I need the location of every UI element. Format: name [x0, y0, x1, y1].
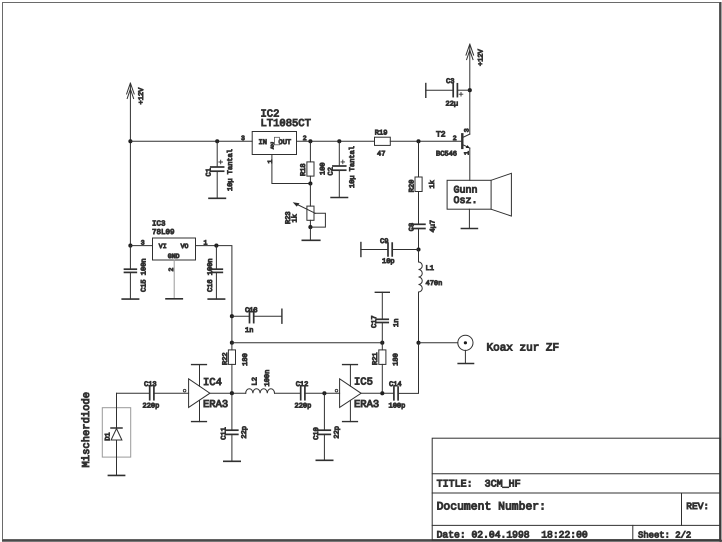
svg-text:4µ7: 4µ7 — [429, 220, 437, 233]
ground R23 — [302, 239, 320, 241]
wire C14 to output node — [398, 343, 418, 394]
wire bias rail — [232, 342, 382, 344]
wire +12V right vertical — [469, 45, 471, 90]
inductor L2 100n — [246, 370, 275, 394]
svg-text:C17: C17 — [371, 315, 379, 328]
node junction R18/R23 — [308, 181, 312, 185]
svg-text:10µ Tantal: 10µ Tantal — [226, 149, 235, 191]
svg-text:+12V: +12V — [138, 87, 146, 105]
svg-text:Gunn: Gunn — [454, 185, 478, 196]
svg-text:IC3: IC3 — [152, 220, 166, 229]
op-amp IC2 LT1085CT regulator — [252, 109, 311, 155]
svg-text:TITLE: 3CM_HF: TITLE: 3CM_HF — [437, 479, 521, 490]
svg-text:3: 3 — [141, 239, 145, 246]
svg-text:100n: 100n — [264, 370, 272, 387]
svg-text:3: 3 — [241, 135, 245, 142]
wire IC3 gnd pin — [173, 260, 175, 299]
svg-text:C12: C12 — [296, 381, 309, 389]
capacitor C18 1n — [232, 307, 282, 335]
ground IC3 — [166, 298, 182, 300]
svg-text:C8: C8 — [408, 223, 416, 231]
node junction rail left — [230, 341, 234, 345]
capacitor C14 100p — [389, 381, 406, 411]
svg-text:C18: C18 — [245, 307, 258, 315]
svg-text:R18: R18 — [300, 163, 308, 176]
node junction IC5 out / R21 — [380, 391, 384, 395]
svg-text:+12V: +12V — [478, 48, 486, 66]
supply +12V right — [466, 44, 486, 66]
wire +12V left vertical — [129, 84, 131, 246]
svg-text:180: 180 — [242, 353, 250, 366]
title block — [432, 438, 720, 540]
svg-text:220p: 220p — [143, 403, 160, 411]
node junction C15 / IC3 input — [128, 244, 132, 248]
svg-text:C2: C2 — [328, 167, 336, 175]
svg-text:Document Number:: Document Number: — [437, 501, 546, 514]
svg-text:470n: 470n — [426, 280, 443, 288]
node junction C16 — [214, 244, 218, 248]
wire main 12V rail — [130, 140, 252, 142]
ground Gunn — [461, 228, 477, 230]
svg-text:10µ Tantal: 10µ Tantal — [348, 146, 357, 188]
svg-text:1k: 1k — [428, 180, 437, 188]
stub terminal C18 — [281, 309, 283, 323]
wire R19 to T2 base — [390, 140, 461, 142]
svg-text:R20: R20 — [408, 180, 416, 193]
svg-text:Date: 02.04.1998 18:22:00: Date: 02.04.1998 18:22:00 — [437, 530, 588, 541]
wire IC4 output — [210, 392, 246, 394]
wire IC2 output rail — [297, 140, 375, 142]
svg-text:10p: 10p — [382, 258, 395, 266]
resistor R20 1k — [408, 141, 436, 224]
node junction R18 top — [308, 139, 312, 143]
svg-text:1k: 1k — [290, 214, 299, 222]
svg-text:C10: C10 — [313, 427, 321, 440]
ground C10 — [316, 459, 332, 461]
wire to IC3 VI — [130, 245, 152, 247]
capacitor C8 4u7 — [408, 220, 437, 250]
supply +12V left — [127, 83, 146, 105]
stub terminal C3 — [425, 84, 427, 98]
resistor R19 47 — [375, 130, 391, 159]
ground C2 — [331, 197, 347, 199]
svg-text:1n: 1n — [393, 319, 401, 327]
wire D1 to C13 — [117, 392, 150, 394]
svg-text:D1: D1 — [104, 432, 112, 440]
capacitor C1 10u Tantal — [206, 141, 235, 198]
svg-text:R19: R19 — [375, 130, 388, 138]
capacitor C15 100n — [125, 246, 149, 300]
svg-text:C1: C1 — [206, 168, 214, 176]
capacitor C2 10u Tantal — [328, 141, 357, 197]
node junction T2 base / R20 — [416, 139, 420, 143]
svg-text:IC5: IC5 — [354, 377, 373, 389]
svg-text:REV:: REV: — [686, 501, 709, 512]
svg-text:C13: C13 — [144, 381, 157, 389]
capacitor C11 22p — [221, 393, 249, 461]
node junction C18 — [230, 314, 234, 318]
block Gunn oscillator — [447, 173, 511, 216]
svg-text:Osz.: Osz. — [454, 196, 478, 207]
svg-text:22p: 22p — [334, 426, 342, 439]
svg-text:1: 1 — [267, 160, 274, 164]
svg-text:C9: C9 — [380, 238, 388, 246]
node junction C17/R21 — [380, 341, 384, 345]
wire Gunn to ground — [468, 209, 470, 228]
transistor T2 BC546 — [436, 90, 470, 180]
svg-text:C14: C14 — [389, 381, 402, 389]
svg-text:R21: R21 — [372, 352, 380, 365]
svg-text:22µ: 22µ — [446, 101, 459, 109]
ground C11 — [224, 460, 240, 462]
op-amp IC3 78L09 regulator — [152, 220, 196, 260]
svg-text:Sheet: 2/2: Sheet: 2/2 — [638, 530, 691, 540]
svg-text:C16 100n: C16 100n — [207, 258, 215, 292]
svg-text:47: 47 — [377, 151, 385, 159]
svg-text:VO: VO — [181, 243, 189, 250]
svg-text:L2: L2 — [251, 377, 259, 385]
svg-text:3: 3 — [463, 128, 470, 132]
stub terminal C9 — [360, 243, 362, 257]
node junction C8/C9/L1 — [416, 247, 420, 251]
wire IC2 ADJ — [272, 155, 311, 184]
capacitor C3 22u — [426, 78, 470, 109]
svg-text:180: 180 — [393, 353, 401, 366]
stub terminal C17 — [375, 291, 389, 293]
wire R23 to ground — [309, 227, 311, 240]
svg-text:78L09: 78L09 — [152, 228, 175, 237]
capacitor C10 22p — [313, 393, 341, 460]
resistor R18 100 — [300, 141, 327, 183]
svg-text:VI: VI — [159, 243, 167, 250]
resistor R22 180 — [222, 343, 250, 394]
svg-text:1n: 1n — [245, 327, 253, 335]
svg-text:C15 100n: C15 100n — [141, 258, 149, 292]
node junction C2 top — [337, 139, 341, 143]
svg-text:L1: L1 — [426, 265, 434, 273]
node junction IC5 in / C10 — [322, 391, 326, 395]
svg-text:GND: GND — [168, 253, 180, 260]
op-amp IC5 ERA3 — [335, 365, 379, 422]
svg-text:ERA3: ERA3 — [203, 399, 228, 411]
capacitor C9 10p — [361, 238, 419, 266]
inductor L1 470n — [419, 250, 443, 343]
node junction L1/C14/koax — [416, 341, 420, 345]
svg-text:C11: C11 — [221, 427, 229, 440]
svg-text:LT1085CT: LT1085CT — [261, 118, 311, 130]
node junction +12V/rail — [128, 139, 132, 143]
ground C1 — [209, 197, 225, 199]
svg-text:22p: 22p — [241, 426, 249, 439]
capacitor C13 220p — [143, 381, 189, 411]
svg-text:Koax zur ZF: Koax zur ZF — [487, 342, 560, 354]
svg-text:1: 1 — [463, 151, 470, 155]
wire IC5 output — [361, 392, 394, 394]
node junction C1 — [215, 139, 219, 143]
diode D1 Mischerdiode — [102, 393, 130, 475]
svg-text:C3: C3 — [446, 78, 454, 86]
svg-text:IC4: IC4 — [203, 377, 222, 389]
capacitor C17 1n — [371, 292, 401, 342]
svg-text:100p: 100p — [389, 403, 406, 411]
svg-text:R22: R22 — [222, 352, 230, 365]
wire IC3 VO to C18 column — [196, 246, 232, 343]
svg-text:IN: IN — [259, 139, 267, 147]
ground koax — [458, 363, 473, 365]
ground C16 — [208, 298, 224, 300]
node junction R23 wiper — [308, 225, 312, 229]
svg-text:ADJ: ADJ — [271, 142, 276, 149]
svg-text:2: 2 — [453, 135, 457, 142]
ground C15 — [122, 298, 138, 300]
wire koax feed — [419, 342, 458, 344]
op-amp IC4 ERA3 — [183, 365, 228, 422]
capacitor C16 100n — [207, 246, 222, 300]
svg-text:100: 100 — [319, 162, 327, 175]
svg-text:T2: T2 — [436, 130, 446, 139]
svg-text:OUT: OUT — [279, 139, 292, 147]
node junction C3 — [468, 88, 472, 92]
capacitor C12 220p — [295, 381, 340, 411]
resistor R21 180 — [372, 343, 400, 394]
svg-text:ERA3: ERA3 — [354, 399, 379, 411]
svg-text:BC546: BC546 — [436, 150, 457, 158]
trimmer R23 1k — [285, 184, 326, 228]
ground D1 — [108, 474, 124, 476]
connector koax — [458, 335, 559, 363]
svg-text:Mischerdiode: Mischerdiode — [81, 392, 93, 468]
svg-text:220p: 220p — [295, 403, 312, 411]
node junction IC4 out / R22 / C11 — [230, 391, 234, 395]
wire L2 to C12 — [275, 392, 301, 394]
